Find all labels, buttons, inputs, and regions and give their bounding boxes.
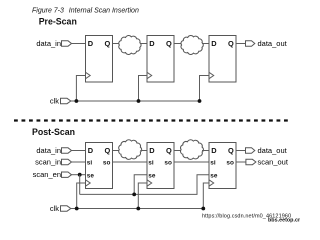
svg-text:data_in: data_in — [36, 146, 61, 155]
junction clk/U4 (post) — [75, 207, 79, 211]
junction clk/U1 (pre) — [75, 99, 79, 103]
wire U4 Q to cloud3 (post) — [113, 150, 121, 152]
wire clk riser to U6 (post) — [203, 183, 209, 209]
input port data_in (pre-scan) — [36, 39, 71, 48]
wire data_in to FF1 D (pre) — [72, 43, 86, 45]
svg-text:Q: Q — [104, 39, 110, 48]
wire cloud4 to U6 D (post) — [202, 150, 209, 152]
flip-flop U4 (post-scan) — [86, 143, 113, 189]
wire scan_in to U4 si (post) — [72, 161, 86, 163]
svg-text:Q: Q — [228, 146, 234, 155]
flip-flop U2 (pre-scan) — [147, 36, 174, 83]
svg-text:si: si — [87, 160, 93, 167]
svg-text:clk: clk — [50, 97, 59, 106]
svg-text:D: D — [88, 146, 94, 155]
svg-text:scan_in: scan_in — [35, 157, 61, 166]
wire clk trunk (pre) — [70, 100, 200, 102]
svg-text:bbs.eetop.cn: bbs.eetop.cn — [268, 218, 300, 224]
combinational logic cloud (pre-scan right) — [181, 36, 203, 55]
wire cloud3 to U5 D (post) — [140, 150, 147, 152]
wire data_in to U4 D (post) — [72, 150, 86, 152]
junction clk/U6 (post) — [201, 207, 205, 211]
svg-text:clk: clk — [50, 204, 59, 213]
svg-text:Q: Q — [228, 39, 234, 48]
svg-text:scan_out: scan_out — [258, 158, 289, 167]
title: Figure 7-3 Internal Scan Insertion — [32, 7, 139, 14]
output port scan_out (post-scan) — [246, 158, 289, 167]
wire cloud1 to U2 D (pre) — [140, 43, 147, 45]
junction clk/U2 (pre) — [137, 99, 141, 103]
svg-text:D: D — [149, 39, 155, 48]
wire U1 Q to cloud1 (pre) — [113, 43, 121, 45]
combinational logic cloud (pre-scan left) — [119, 36, 141, 55]
svg-text:se: se — [210, 172, 218, 179]
svg-text:Q: Q — [104, 146, 110, 155]
svg-text:so: so — [164, 160, 172, 167]
svg-text:data_in: data_in — [36, 39, 61, 48]
svg-text:scan_en: scan_en — [33, 170, 61, 179]
wire clk riser to U5 (post) — [138, 183, 147, 209]
flip-flop U6 (post-scan) — [209, 143, 236, 189]
svg-text:D: D — [211, 146, 217, 155]
wire cloud2 to U3 D (pre) — [202, 43, 209, 45]
input port clk (post-scan) — [50, 204, 71, 213]
svg-text:D: D — [149, 146, 155, 155]
wire U6 so to scan_out port (post) — [236, 161, 246, 163]
svg-text:Internal Scan Insertion: Internal Scan Insertion — [69, 7, 139, 14]
wire clk trunk (post) — [70, 208, 203, 210]
svg-text:Pre-Scan: Pre-Scan — [39, 17, 77, 27]
svg-text:Figure 7-3: Figure 7-3 — [32, 7, 64, 14]
wire scan_en to U4 se (post) — [72, 174, 86, 176]
wire clk riser to U2 (pre) — [139, 76, 148, 102]
wire U2 Q to cloud2 (pre) — [174, 43, 182, 45]
wire U5 so to U6 si (post) — [174, 161, 209, 163]
flip-flop U3 (pre-scan) — [209, 36, 236, 83]
svg-text:D: D — [88, 39, 94, 48]
wire U4 so to U5 si (post) — [113, 161, 148, 163]
input port scan_in (post-scan) — [35, 157, 71, 166]
input port scan_en (post-scan) — [33, 170, 72, 179]
svg-text:se: se — [148, 172, 156, 179]
svg-text:data_out: data_out — [258, 39, 288, 48]
svg-text:si: si — [210, 160, 216, 167]
svg-text:D: D — [211, 39, 217, 48]
svg-text:si: si — [148, 160, 154, 167]
svg-text:Q: Q — [166, 146, 172, 155]
output port data_out (pre-scan) — [246, 39, 288, 48]
wire U6 Q to data_out port (post) — [236, 150, 246, 152]
wire clk riser to U4 (post) — [77, 183, 86, 209]
svg-text:so: so — [226, 160, 234, 167]
wire scan_en drop to se distribution — [79, 175, 81, 195]
junction scan_en branch — [78, 173, 82, 177]
wire clk riser to U1 (pre) — [76, 76, 85, 102]
flip-flop U1 (pre-scan) — [86, 36, 113, 83]
junction clk/U5 (post) — [136, 207, 140, 211]
wire U3 Q to data_out port (pre) — [236, 43, 246, 45]
wire U5 Q to cloud4 (post) — [174, 150, 182, 152]
junction se/U5 (post) — [132, 193, 136, 197]
combinational logic cloud (post-scan left) — [119, 140, 142, 160]
input port clk (pre-scan) — [50, 97, 71, 106]
combinational logic cloud (post-scan right) — [181, 140, 204, 160]
wire se riser to U5 (post) — [134, 175, 147, 195]
svg-text:data_out: data_out — [258, 146, 288, 155]
input port data_in (post-scan) — [36, 146, 71, 155]
svg-text:Post-Scan: Post-Scan — [32, 127, 75, 137]
dashed separator line — [14, 119, 290, 121]
svg-text:Q: Q — [166, 39, 172, 48]
output port data_out (post-scan) — [246, 146, 288, 155]
wire clk riser to U3 (pre) — [200, 76, 210, 102]
wire se distribution trunk — [80, 175, 209, 195]
flip-flop U5 (post-scan) — [147, 143, 174, 189]
svg-text:so: so — [103, 160, 111, 167]
junction clk/U3 (pre) — [198, 99, 202, 103]
svg-text:se: se — [87, 172, 95, 179]
